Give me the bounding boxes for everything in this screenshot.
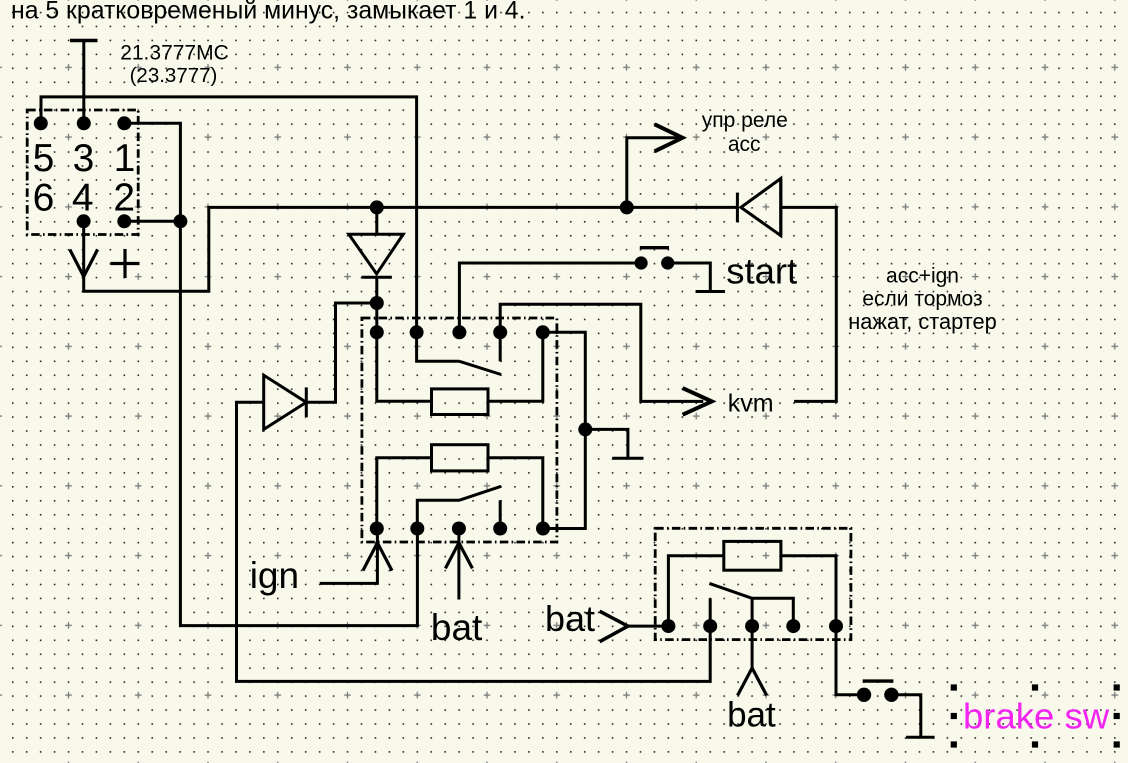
svg-text:3: 3 (73, 137, 95, 180)
svg-text:упр реле: упр реле (702, 109, 788, 132)
svg-text:21.3777МС: 21.3777МС (120, 42, 229, 65)
svg-text:нажат, стартер: нажат, стартер (848, 309, 996, 334)
svg-text:bat: bat (545, 598, 595, 639)
svg-text:1: 1 (114, 137, 136, 180)
svg-text:start: start (726, 251, 797, 292)
svg-text:brake sw: brake sw (963, 695, 1110, 736)
svg-text:kvm: kvm (728, 390, 774, 418)
svg-text:bat: bat (431, 607, 483, 648)
svg-text:5: 5 (33, 137, 55, 180)
svg-text:acc+ign: acc+ign (886, 264, 959, 287)
svg-text:(23.3777): (23.3777) (130, 64, 218, 87)
svg-text:если тормоз: если тормоз (862, 288, 982, 311)
svg-text:ign: ign (250, 555, 299, 596)
svg-text:bat: bat (727, 696, 776, 735)
svg-text:2: 2 (113, 177, 135, 220)
svg-text:на 5 кратковременый минус, зам: на 5 кратковременый минус, замыкает 1 и … (11, 0, 526, 25)
svg-text:4: 4 (72, 177, 94, 220)
svg-text:6: 6 (33, 177, 55, 220)
svg-text:acc: acc (728, 133, 761, 156)
